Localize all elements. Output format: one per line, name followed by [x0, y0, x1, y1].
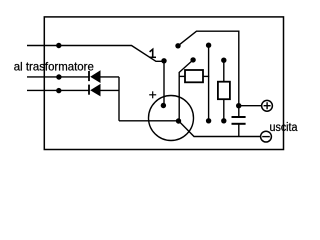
svg-text:uscita: uscita — [270, 122, 299, 134]
svg-text:al trasformatore: al trasformatore — [14, 59, 94, 73]
